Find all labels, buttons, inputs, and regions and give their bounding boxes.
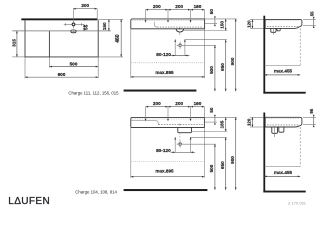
svg-text:Charge 111, 112, 156, 015: Charge 111, 112, 156, 015: [68, 91, 119, 96]
svg-text:500: 500: [209, 66, 214, 74]
svg-text:95: 95: [309, 108, 314, 113]
svg-text:500: 500: [70, 62, 78, 67]
svg-text:460: 460: [115, 34, 121, 43]
svg-text:650: 650: [220, 63, 225, 71]
svg-text:900: 900: [230, 156, 235, 164]
svg-text:300: 300: [81, 3, 89, 8]
svg-text:160: 160: [194, 101, 202, 106]
svg-text:185: 185: [220, 120, 225, 128]
svg-text:150: 150: [220, 21, 225, 29]
svg-text:55: 55: [310, 11, 315, 16]
svg-text:55: 55: [84, 24, 89, 30]
svg-text:120: 120: [246, 118, 251, 126]
svg-text:650: 650: [220, 161, 225, 169]
svg-text:max.455: max.455: [274, 170, 293, 175]
svg-text:500: 500: [209, 164, 214, 172]
svg-text:900: 900: [230, 57, 235, 65]
svg-text:200: 200: [175, 101, 183, 106]
svg-text:200: 200: [153, 101, 161, 106]
svg-text:max.895: max.895: [155, 168, 174, 173]
svg-text:160: 160: [194, 4, 202, 9]
svg-text:900: 900: [58, 72, 66, 77]
svg-text:Z 170.031: Z 170.031: [288, 201, 307, 206]
svg-text:120: 120: [246, 20, 251, 28]
svg-text:150: 150: [102, 22, 107, 30]
svg-text:80-120: 80-120: [156, 52, 171, 57]
svg-text:200: 200: [175, 4, 183, 9]
svg-text:80-120: 80-120: [156, 148, 171, 153]
svg-text:315: 315: [12, 39, 18, 47]
svg-text:200: 200: [153, 4, 161, 9]
svg-text:LΔUFEN: LΔUFEN: [8, 196, 50, 207]
svg-text:max.455: max.455: [274, 69, 293, 74]
svg-text:50: 50: [209, 9, 214, 15]
svg-text:max.895: max.895: [155, 70, 174, 75]
svg-text:50: 50: [209, 107, 214, 113]
svg-text:Charge 104, 108, 814: Charge 104, 108, 814: [75, 189, 117, 194]
